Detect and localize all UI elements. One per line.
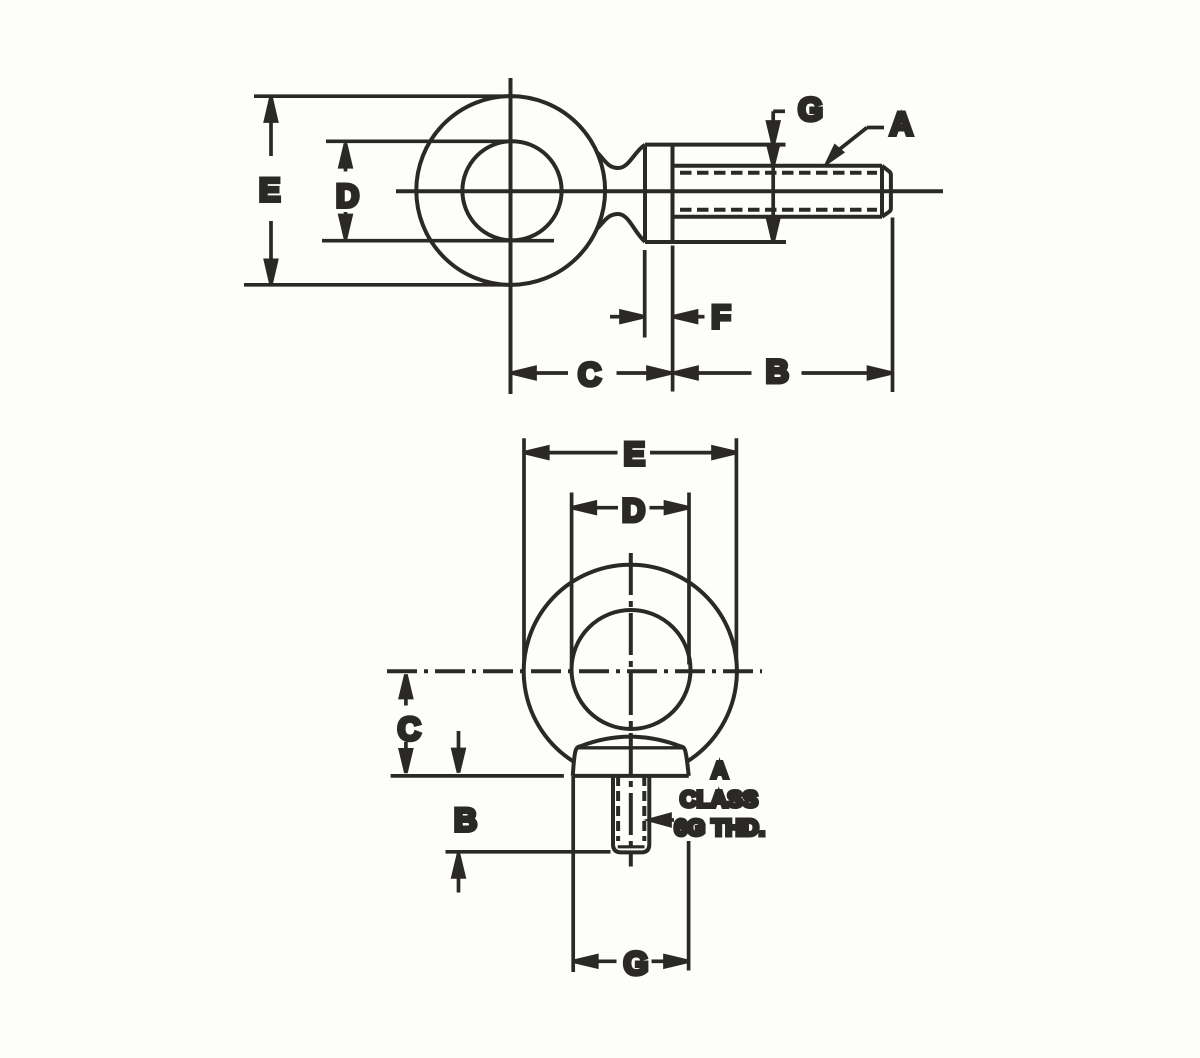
svg-text:A: A — [711, 757, 728, 783]
dimension D (front view) — [572, 493, 689, 665]
neck bottom curve — [597, 214, 645, 242]
stud thread dashed line right — [642, 776, 646, 841]
thread outer diameter bottom line — [673, 215, 883, 219]
svg-text:6G THD.: 6G THD. — [674, 815, 765, 841]
stud outline with rounded bottom — [613, 776, 649, 853]
svg-text:F: F — [711, 299, 731, 335]
thread end vertical line — [880, 166, 884, 217]
thread outer diameter top line — [673, 164, 883, 168]
leader arrow to stud thread — [650, 815, 674, 826]
dimension G (front view) — [574, 956, 688, 967]
svg-text:C: C — [578, 356, 601, 392]
svg-text:D: D — [622, 493, 645, 529]
neck top curve — [597, 145, 645, 168]
B extension line right (end of shank) — [891, 218, 895, 393]
dimension G (top view) — [768, 111, 785, 241]
chamfered end of shank — [882, 166, 891, 217]
svg-text:A: A — [890, 106, 913, 142]
dimension C (top view) — [512, 368, 671, 379]
stud end-of-thread inner line — [618, 845, 645, 848]
eye outer circle arc (front) — [524, 565, 737, 762]
svg-text:B: B — [766, 354, 789, 390]
horizontal centerline through shank — [396, 189, 943, 193]
F extension line right / C-B extension — [671, 246, 675, 392]
G extension line left (front) — [571, 776, 575, 972]
collar bottom edge — [573, 774, 689, 778]
vertical centerline through eye — [509, 78, 513, 394]
collar chord line — [578, 746, 683, 749]
horizontal centerline (front) — [387, 669, 762, 673]
svg-text:G: G — [624, 946, 649, 982]
dimension F — [610, 311, 705, 322]
dimension D (top view) — [322, 141, 554, 240]
dimension B (top view) — [674, 368, 892, 379]
stud thread dashed line left — [616, 776, 620, 841]
shoulder bottom extension line (left) — [391, 774, 564, 778]
thread root dashed line top — [680, 171, 877, 175]
vertical centerline (front) — [629, 553, 633, 867]
shoulder collar rectangle — [645, 145, 673, 242]
F extension line left — [643, 250, 647, 338]
eye outer circle — [416, 96, 605, 285]
svg-text:E: E — [624, 436, 645, 472]
eye inner circle (hole) — [462, 141, 561, 240]
shoulder bottom edge + G extension line — [645, 240, 786, 244]
dimension B (front view) — [453, 731, 464, 893]
dimension E (top view) — [244, 96, 516, 285]
collar outline with dome top — [573, 737, 689, 776]
svg-text:C: C — [398, 711, 421, 747]
shoulder top edge + G extension line — [645, 143, 786, 147]
svg-text:B: B — [454, 802, 477, 838]
thread root dashed line bottom — [680, 208, 877, 212]
svg-text:D: D — [336, 178, 359, 214]
svg-text:E: E — [259, 172, 280, 208]
svg-text:G: G — [798, 91, 823, 127]
eye inner circle (front) — [572, 610, 691, 729]
dimension C (front view) — [400, 675, 411, 773]
stud bottom extension line — [446, 850, 611, 854]
dimension E (front view) — [524, 438, 736, 661]
G extension line right (front) — [687, 841, 691, 971]
svg-text:CLASS: CLASS — [680, 786, 758, 812]
